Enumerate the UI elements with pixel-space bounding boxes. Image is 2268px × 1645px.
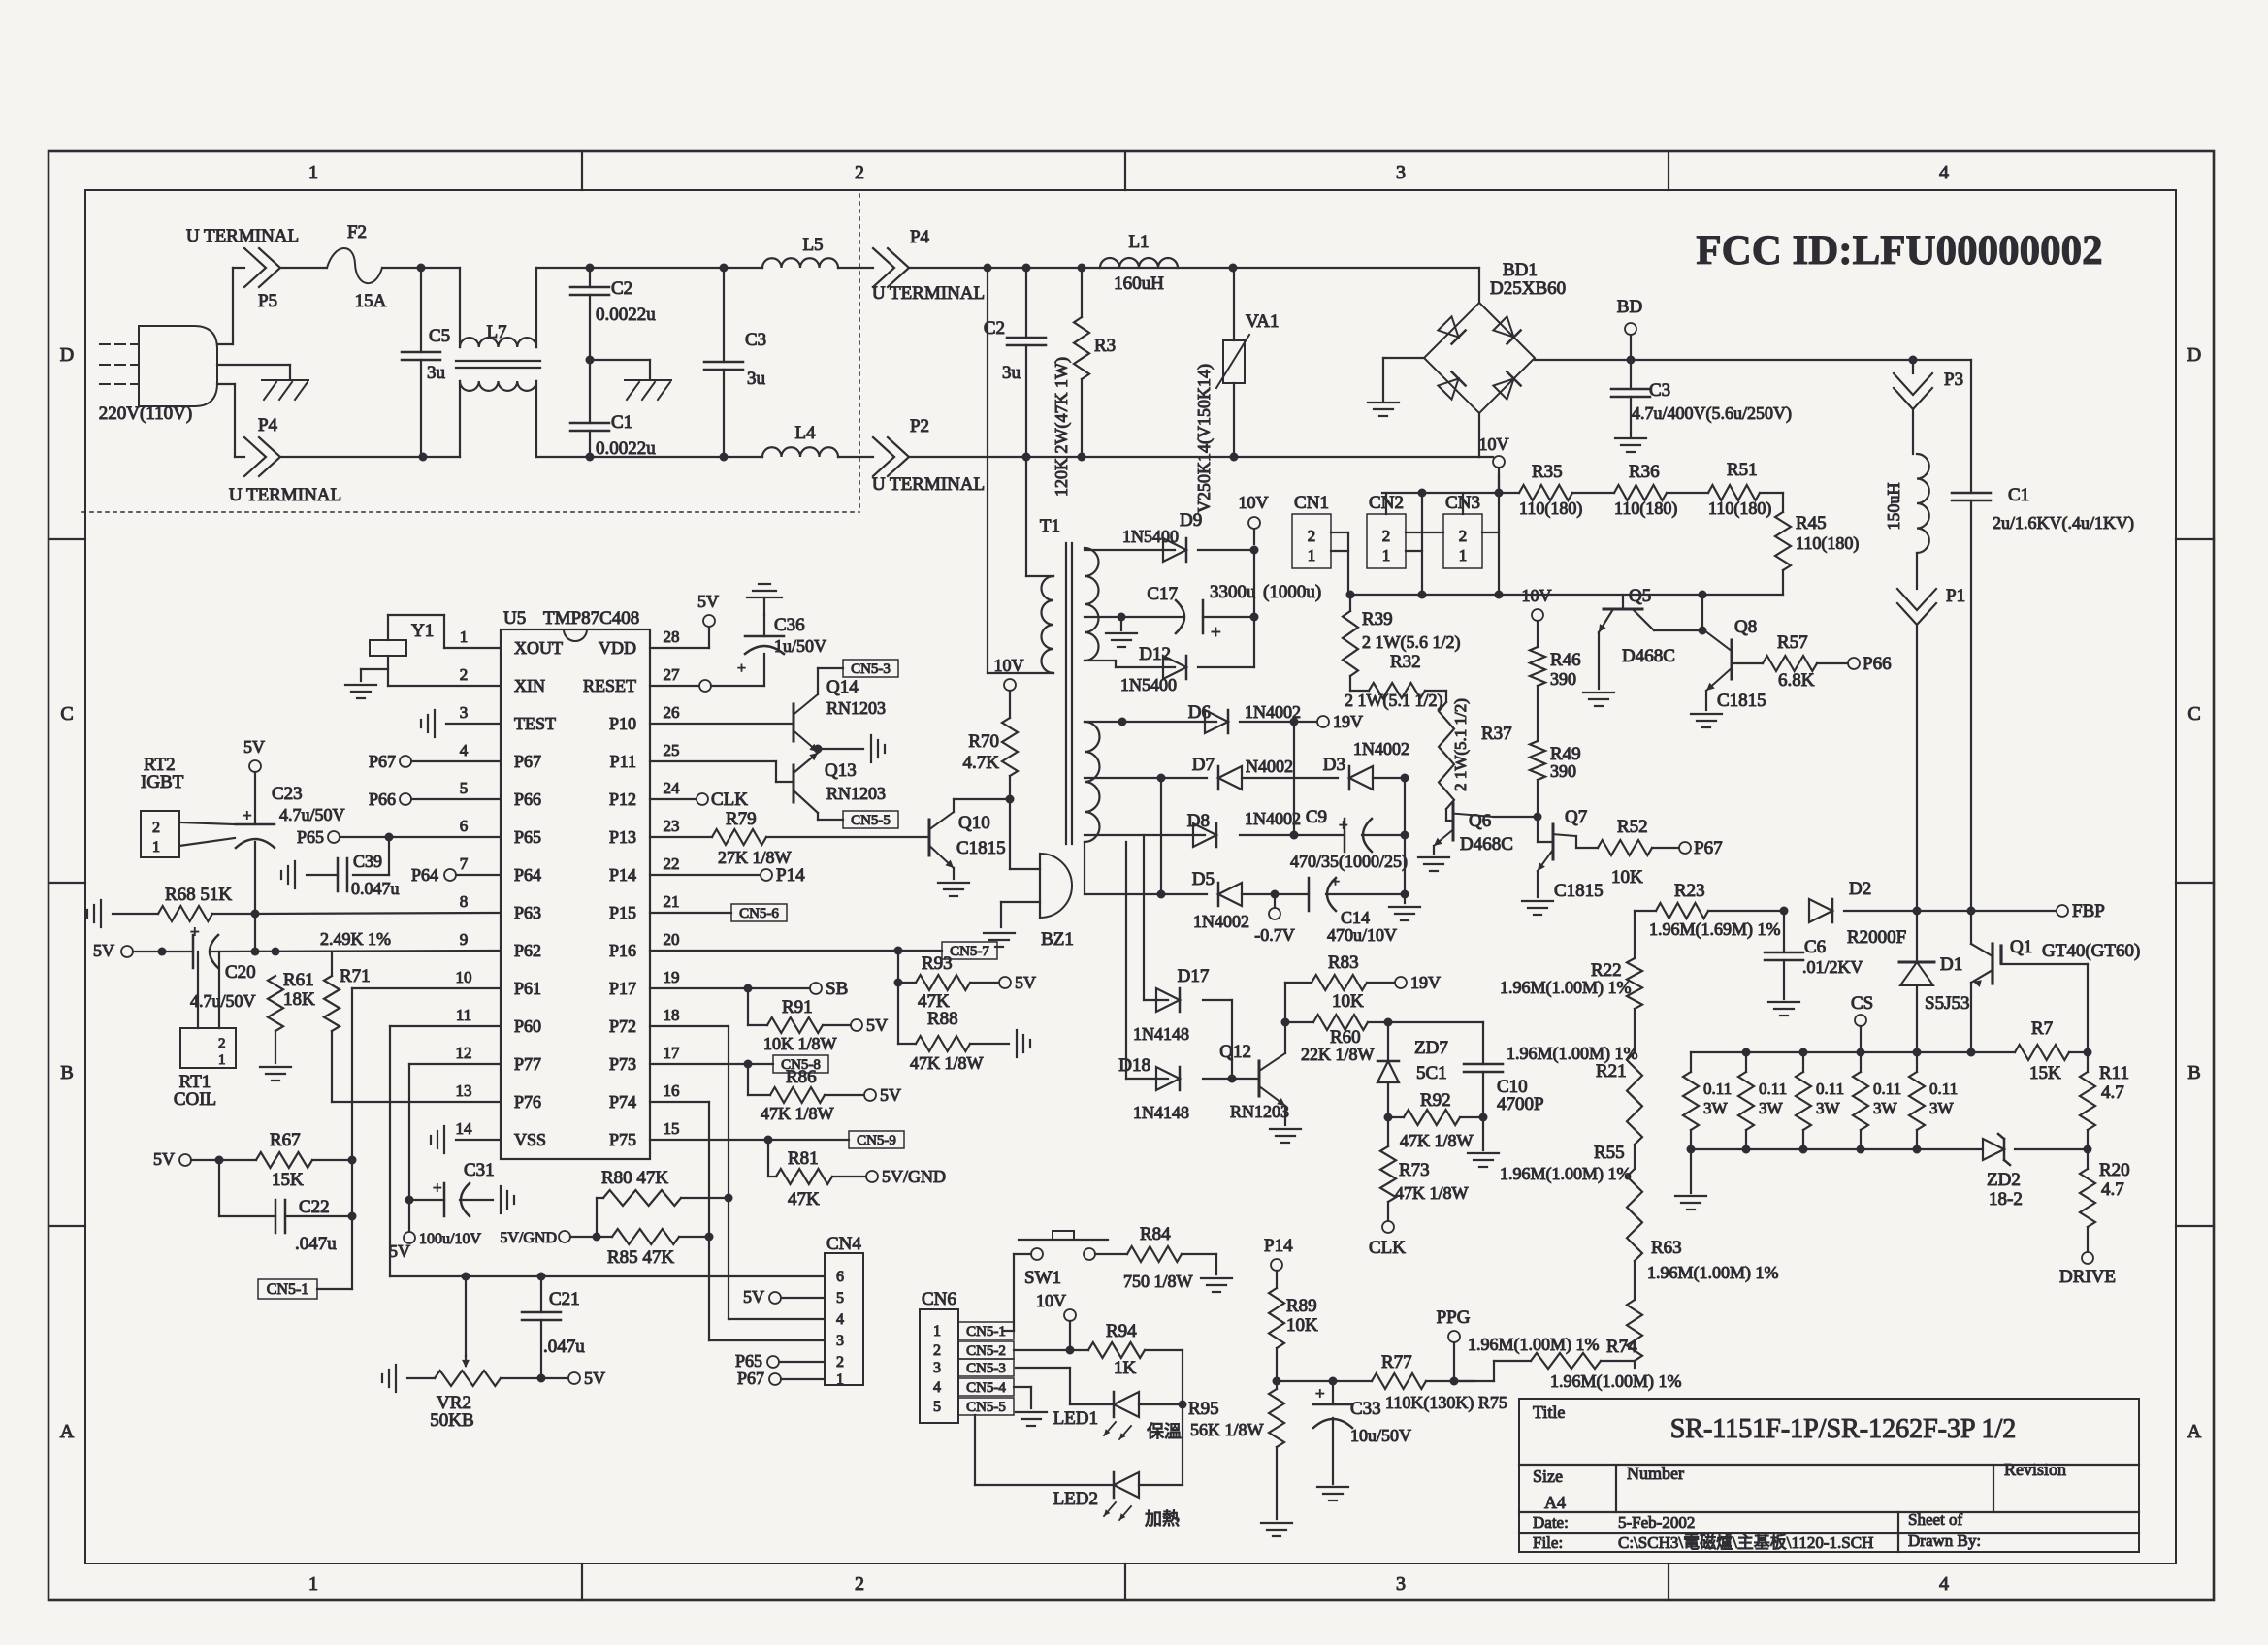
net label CN5-1 (left) bbox=[258, 1279, 352, 1299]
svg-text:R74: R74 bbox=[1606, 1337, 1637, 1357]
wire top rail to C3 bbox=[590, 264, 729, 273]
svg-text:R3: R3 bbox=[1094, 336, 1116, 356]
wire P5 to F2 bbox=[280, 267, 327, 269]
wire LED1 to CN5-3 bbox=[1016, 1368, 1114, 1404]
svg-text:110(180): 110(180) bbox=[1708, 499, 1771, 519]
capacitor C36 1u/50V bbox=[650, 615, 826, 692]
svg-text:A: A bbox=[2187, 1421, 2202, 1442]
ground (C36) bbox=[747, 584, 782, 615]
svg-text:P65: P65 bbox=[735, 1351, 762, 1371]
resistor R63 1.96M bbox=[1627, 1238, 1779, 1368]
wire R51 to R45 bbox=[1760, 493, 1783, 512]
svg-text:4: 4 bbox=[1939, 162, 1949, 183]
wire Q14 emitter to ground bbox=[814, 745, 864, 754]
svg-text:24: 24 bbox=[664, 779, 681, 797]
svg-text:3W: 3W bbox=[1816, 1099, 1841, 1117]
svg-text:P13: P13 bbox=[609, 827, 636, 847]
wire FBP rail bbox=[1844, 907, 2057, 916]
chassis ground (filter) bbox=[625, 380, 671, 400]
svg-text:A: A bbox=[60, 1421, 75, 1442]
svg-text:2u/1.6KV(.4u/1KV): 2u/1.6KV(.4u/1KV) bbox=[1993, 513, 2134, 533]
wire top rail to T1 primary bbox=[988, 268, 1053, 673]
svg-text:L1: L1 bbox=[1128, 232, 1149, 252]
terminal P3 bbox=[1894, 360, 1963, 409]
svg-text:D468C: D468C bbox=[1460, 834, 1513, 855]
svg-text:0.11: 0.11 bbox=[1703, 1080, 1732, 1098]
svg-text:P4: P4 bbox=[258, 415, 278, 435]
svg-text:R81: R81 bbox=[788, 1148, 819, 1169]
svg-text:1: 1 bbox=[152, 839, 160, 855]
wire D6 out to 19V bbox=[1240, 718, 1317, 726]
svg-text:P2: P2 bbox=[910, 416, 929, 436]
wire P74 to CN4 pin3 bbox=[650, 1102, 714, 1340]
ground (Y1) bbox=[345, 685, 376, 698]
capacitor C1 0.0022u bbox=[570, 360, 656, 459]
diode D17 1N4148 bbox=[1133, 966, 1209, 1044]
transistor Q14 RN1203 bbox=[650, 668, 886, 752]
svg-text:D: D bbox=[60, 344, 74, 366]
resistor R70 4.7K bbox=[963, 656, 1024, 804]
svg-text:U TERMINAL: U TERMINAL bbox=[229, 485, 341, 505]
zener ZD2 18-2 bbox=[1983, 1134, 2088, 1210]
svg-text:1N4002: 1N4002 bbox=[1193, 912, 1249, 931]
svg-text:CN5-3: CN5-3 bbox=[851, 661, 891, 677]
net 5V (VR2) bbox=[568, 1369, 605, 1388]
svg-text:A4: A4 bbox=[1544, 1493, 1566, 1512]
svg-text:Q1: Q1 bbox=[2010, 937, 2032, 957]
svg-text:0.11: 0.11 bbox=[1759, 1080, 1787, 1098]
svg-text:LED1: LED1 bbox=[1053, 1408, 1098, 1429]
net 10V (R94) bbox=[1036, 1291, 1076, 1355]
terminal P65 (pin6) bbox=[297, 827, 501, 847]
svg-text:25: 25 bbox=[664, 741, 680, 759]
svg-text:C2: C2 bbox=[611, 278, 632, 299]
svg-text:2: 2 bbox=[933, 1342, 941, 1359]
resistor R92 47K bbox=[1388, 1090, 1483, 1150]
svg-text:47K 1/8W: 47K 1/8W bbox=[1400, 1131, 1474, 1150]
svg-text:P77: P77 bbox=[514, 1054, 541, 1074]
resistor R35 110(180) bbox=[1519, 462, 1582, 519]
svg-text:BD: BD bbox=[1617, 297, 1642, 317]
resistor R94 1K bbox=[1088, 1321, 1183, 1378]
svg-text:Revision: Revision bbox=[2004, 1460, 2066, 1479]
wire D18 out to Q12 bbox=[1203, 1078, 1259, 1080]
svg-text:P11: P11 bbox=[610, 752, 636, 771]
svg-text:P10: P10 bbox=[609, 714, 636, 733]
resistor R95 56K bbox=[1188, 1381, 1284, 1447]
svg-text:1.96M(1.00M) 1%: 1.96M(1.00M) 1% bbox=[1500, 978, 1632, 998]
svg-text:CN5-1: CN5-1 bbox=[966, 1324, 1006, 1339]
resistor R22 1.96M bbox=[1500, 911, 1642, 1052]
net 5V/GND (R81) bbox=[866, 1167, 946, 1186]
dashed filter boundary bbox=[82, 194, 859, 512]
fuse F2 15A bbox=[327, 222, 387, 311]
svg-text:Q10: Q10 bbox=[958, 813, 990, 833]
svg-text:R51: R51 bbox=[1727, 460, 1758, 480]
svg-text:5V: 5V bbox=[389, 1242, 410, 1261]
diode D2 R2000F bbox=[1809, 879, 1906, 948]
net 10V tap (bridge) bbox=[1479, 435, 1509, 493]
svg-text:1: 1 bbox=[460, 628, 469, 646]
wire 5V pin9 row bbox=[93, 914, 501, 960]
svg-text:11: 11 bbox=[456, 1006, 471, 1024]
svg-text:CN4: CN4 bbox=[826, 1234, 861, 1254]
svg-text:1: 1 bbox=[1459, 546, 1468, 564]
svg-text:15: 15 bbox=[664, 1119, 680, 1138]
svg-text:CN6: CN6 bbox=[922, 1289, 956, 1309]
IC U5 TMP87C408 bbox=[456, 608, 681, 1159]
svg-text:Q6: Q6 bbox=[1469, 811, 1491, 831]
resistor R55 1.96M bbox=[1500, 1143, 1642, 1300]
wire 19V column to D17 bbox=[1144, 835, 1168, 1000]
svg-text:4700P: 4700P bbox=[1497, 1094, 1544, 1114]
svg-text:R39: R39 bbox=[1362, 609, 1393, 629]
svg-text:U5: U5 bbox=[503, 608, 526, 629]
svg-text:10V: 10V bbox=[994, 656, 1024, 675]
svg-text:50KB: 50KB bbox=[430, 1410, 473, 1431]
ground (C17) bbox=[1106, 633, 1137, 647]
svg-text:P66: P66 bbox=[1863, 654, 1892, 674]
svg-text:47K: 47K bbox=[788, 1189, 820, 1210]
svg-text:BZ1: BZ1 bbox=[1041, 929, 1074, 950]
svg-text:C9: C9 bbox=[1306, 807, 1327, 827]
net 5V (R93) bbox=[999, 973, 1036, 992]
svg-text:4: 4 bbox=[460, 741, 469, 759]
capacitor C2 3u (snubber) bbox=[984, 268, 1046, 457]
capacitor C21 .047u bbox=[522, 1276, 585, 1378]
svg-text:2: 2 bbox=[855, 1573, 864, 1595]
svg-text:0.11: 0.11 bbox=[1816, 1080, 1844, 1098]
svg-text:C1815: C1815 bbox=[1717, 691, 1766, 711]
svg-text:XIN: XIN bbox=[514, 676, 545, 695]
svg-text:3W: 3W bbox=[1873, 1099, 1898, 1117]
svg-text:1: 1 bbox=[1382, 546, 1391, 564]
capacitor C3 4.7u/400V bbox=[1611, 360, 1792, 436]
svg-text:CN5-3: CN5-3 bbox=[966, 1361, 1006, 1376]
svg-text:4.7: 4.7 bbox=[2101, 1082, 2124, 1103]
svg-text:5V: 5V bbox=[866, 1016, 888, 1035]
capacitor C22 .047u bbox=[219, 1160, 357, 1254]
connector CN2 bbox=[1367, 493, 1422, 568]
svg-text:10K: 10K bbox=[1332, 991, 1364, 1012]
svg-text:1: 1 bbox=[218, 1052, 226, 1068]
svg-text:.047u: .047u bbox=[543, 1337, 585, 1357]
net -0.7V bbox=[1254, 894, 1295, 945]
svg-text:10V: 10V bbox=[1479, 435, 1509, 454]
svg-text:R89: R89 bbox=[1286, 1296, 1317, 1316]
resistor R74 1.96M bbox=[1454, 1335, 1682, 1392]
svg-text:R32: R32 bbox=[1390, 652, 1421, 672]
net label CN5-5 (CN6) bbox=[958, 1398, 1014, 1415]
svg-text:FCC ID:LFU00000002: FCC ID:LFU00000002 bbox=[1696, 228, 2102, 274]
svg-text:5-Feb-2002: 5-Feb-2002 bbox=[1618, 1513, 1695, 1532]
svg-text:RESET: RESET bbox=[583, 676, 636, 695]
svg-text:D6: D6 bbox=[1188, 702, 1211, 723]
net 5V (R91) bbox=[851, 1016, 888, 1035]
wire Q5-Q8 node bbox=[1699, 595, 1707, 635]
svg-text:C1815: C1815 bbox=[1554, 881, 1604, 901]
svg-text:VSS: VSS bbox=[514, 1130, 546, 1149]
svg-text:P72: P72 bbox=[609, 1016, 636, 1036]
transistor Q13 RN1203 bbox=[650, 753, 886, 820]
ground (R88) bbox=[1017, 1030, 1030, 1057]
svg-text:D8: D8 bbox=[1187, 811, 1210, 831]
terminal P65 (CN4) bbox=[735, 1351, 779, 1371]
resistor R36 110(180) bbox=[1614, 462, 1677, 519]
svg-text:2: 2 bbox=[1459, 527, 1468, 545]
ground (R95) bbox=[1261, 1523, 1292, 1536]
svg-text:5: 5 bbox=[933, 1399, 941, 1415]
svg-text:D25XB60: D25XB60 bbox=[1490, 278, 1566, 299]
svg-text:R36: R36 bbox=[1629, 462, 1660, 482]
svg-text:1: 1 bbox=[308, 1573, 318, 1595]
ground (C6) bbox=[1768, 1002, 1799, 1016]
svg-text:R46: R46 bbox=[1550, 650, 1581, 670]
ground (C14) bbox=[1389, 907, 1420, 920]
transistor Q1 GT40(GT60) bbox=[1971, 911, 2140, 1052]
wire D3 out bbox=[1373, 774, 1409, 783]
svg-text:CN5-9: CN5-9 bbox=[857, 1133, 896, 1148]
svg-text:3W: 3W bbox=[1703, 1099, 1729, 1117]
transistor Q7 C1815 bbox=[1538, 807, 1604, 901]
node C2/C1 junctions bbox=[586, 264, 595, 462]
svg-text:2: 2 bbox=[1308, 527, 1316, 545]
wire sec2 top to D6 bbox=[1085, 718, 1216, 726]
svg-text:R77: R77 bbox=[1381, 1352, 1412, 1372]
connector CN4 bbox=[709, 1234, 863, 1388]
wire R45 to lower bus bbox=[1346, 570, 1784, 599]
svg-text:PPG: PPG bbox=[1437, 1307, 1471, 1328]
net 10V (D9) bbox=[1239, 493, 1269, 544]
svg-text:P66: P66 bbox=[369, 790, 396, 809]
terminal P1 bbox=[1897, 586, 1965, 625]
svg-text:B: B bbox=[2187, 1062, 2200, 1083]
shunt resistor 0.11 3W (4) bbox=[1853, 1052, 1901, 1149]
resistor R73 47K bbox=[1380, 1117, 1469, 1221]
svg-text:.01/2KV: .01/2KV bbox=[1802, 957, 1863, 977]
svg-text:R57: R57 bbox=[1777, 632, 1808, 653]
svg-text:P73: P73 bbox=[609, 1054, 636, 1074]
resistor R52 10K bbox=[1598, 817, 1679, 887]
terminal SB (pin19) bbox=[650, 979, 848, 999]
resistor R23 1.96M bbox=[1635, 881, 1789, 940]
capacitor C6 .01/2KV bbox=[1765, 911, 1863, 999]
net label CN5-7 bbox=[650, 942, 997, 959]
svg-text:P14: P14 bbox=[776, 865, 805, 886]
svg-text:R21: R21 bbox=[1596, 1061, 1627, 1081]
net 5V (C31) bbox=[389, 1200, 415, 1261]
svg-text:C36: C36 bbox=[774, 615, 805, 635]
svg-text:4.7u/400V(5.6u/250V): 4.7u/400V(5.6u/250V) bbox=[1632, 403, 1792, 424]
wire D9 out bbox=[1198, 546, 1259, 555]
svg-text:10V: 10V bbox=[1036, 1291, 1066, 1310]
svg-text:3: 3 bbox=[836, 1333, 844, 1349]
svg-text:Q13: Q13 bbox=[825, 760, 857, 781]
svg-text:+: + bbox=[1211, 623, 1221, 643]
svg-text:P66: P66 bbox=[514, 790, 541, 809]
wire sec1 bottom to D12 bbox=[1085, 661, 1175, 667]
svg-text:VA1: VA1 bbox=[1246, 311, 1280, 332]
svg-text:7: 7 bbox=[460, 855, 469, 873]
ground (VR2) bbox=[382, 1365, 396, 1392]
wire sec2 bottom bbox=[1085, 842, 1166, 899]
resistor R61 18K bbox=[268, 970, 315, 1063]
svg-text:D5: D5 bbox=[1192, 869, 1215, 889]
svg-text:2: 2 bbox=[836, 1354, 844, 1371]
wire sec2 tap2 to D7 bbox=[1085, 774, 1207, 783]
resistor R57 6.8K bbox=[1732, 632, 1848, 691]
svg-text:CLK: CLK bbox=[1369, 1238, 1406, 1258]
resistor R77 110K bbox=[1372, 1352, 1507, 1413]
svg-text:+: + bbox=[243, 806, 252, 824]
capacitor C20 4.7u/50V bbox=[190, 922, 256, 1011]
svg-text:CLK: CLK bbox=[711, 790, 748, 810]
wire pin13 row P76 bbox=[332, 1101, 501, 1103]
svg-text:P65: P65 bbox=[514, 827, 541, 847]
svg-text:P64: P64 bbox=[411, 865, 438, 885]
svg-text:P60: P60 bbox=[514, 1016, 541, 1036]
svg-text:B: B bbox=[60, 1062, 73, 1083]
wire P72 to CN4 pin4 bbox=[501, 1026, 733, 1319]
svg-text:Q8: Q8 bbox=[1734, 617, 1757, 637]
svg-text:110(180): 110(180) bbox=[1796, 533, 1859, 554]
svg-text:R91: R91 bbox=[782, 997, 813, 1017]
svg-text:2: 2 bbox=[218, 1036, 226, 1051]
svg-text:RN1203: RN1203 bbox=[826, 698, 886, 718]
transformer T1 secondary upper bbox=[1085, 548, 1099, 661]
svg-text:P65: P65 bbox=[297, 827, 324, 847]
svg-text:IGBT: IGBT bbox=[141, 772, 184, 792]
svg-text:6.8K: 6.8K bbox=[1778, 670, 1815, 691]
svg-text:R52: R52 bbox=[1617, 817, 1648, 837]
svg-text:18-2: 18-2 bbox=[1989, 1189, 2023, 1210]
svg-text:Q12: Q12 bbox=[1219, 1042, 1251, 1062]
svg-text:20: 20 bbox=[664, 930, 680, 949]
svg-text:110(180): 110(180) bbox=[1614, 499, 1677, 519]
svg-text:FBP: FBP bbox=[2072, 901, 2105, 921]
terminal CS bbox=[1851, 993, 1873, 1052]
svg-text:C3: C3 bbox=[1649, 380, 1670, 401]
shunt resistor 0.11 3W (5) bbox=[1909, 1052, 1958, 1149]
resistor R37 2 1W(5.1 1/2) bbox=[1425, 691, 1512, 809]
svg-text:5: 5 bbox=[836, 1290, 844, 1306]
svg-text:C21: C21 bbox=[549, 1289, 580, 1309]
svg-text:470/35(1000/25): 470/35(1000/25) bbox=[1290, 852, 1408, 872]
wire D17 out bbox=[1203, 1000, 1237, 1083]
svg-text:1: 1 bbox=[836, 1371, 844, 1388]
svg-text:P5: P5 bbox=[258, 291, 277, 311]
capacitor C2 0.0022u bbox=[570, 268, 656, 360]
svg-text:C6: C6 bbox=[1804, 937, 1826, 957]
svg-text:18K: 18K bbox=[283, 989, 315, 1010]
transistor Q12 RN1203 bbox=[1219, 1022, 1289, 1125]
diode D12 1N5400 bbox=[1120, 644, 1186, 694]
wire CN5-5 to LED2 bbox=[975, 1415, 1114, 1485]
svg-text:P14: P14 bbox=[609, 865, 636, 885]
svg-text:C23: C23 bbox=[272, 784, 303, 804]
svg-text:110K(130K) R75: 110K(130K) R75 bbox=[1385, 1393, 1507, 1413]
terminal P66 (pin5) bbox=[369, 790, 501, 809]
svg-text:.047u: .047u bbox=[295, 1234, 337, 1254]
svg-text:R86: R86 bbox=[786, 1067, 817, 1087]
svg-text:2: 2 bbox=[1382, 527, 1391, 545]
svg-text:P64: P64 bbox=[514, 865, 541, 885]
chassis ground (plug) bbox=[262, 380, 308, 400]
svg-text:Q5: Q5 bbox=[1629, 586, 1651, 606]
ground (Q12) bbox=[1270, 1129, 1301, 1143]
wire D5 out bbox=[1242, 890, 1309, 899]
net label CN5-1 (CN6) bbox=[958, 1322, 1014, 1339]
net label CN5-4 (CN6) bbox=[958, 1378, 1014, 1396]
svg-text:CN5-1: CN5-1 bbox=[267, 1281, 309, 1298]
wire to D5 bbox=[1161, 893, 1207, 895]
svg-text:1: 1 bbox=[308, 162, 318, 183]
svg-text:3u: 3u bbox=[747, 369, 766, 389]
svg-text:L4: L4 bbox=[794, 423, 816, 443]
wire CN5-2 row bbox=[1014, 1349, 1088, 1351]
svg-text:LED2: LED2 bbox=[1053, 1489, 1098, 1509]
svg-text:6: 6 bbox=[460, 817, 469, 835]
svg-text:VDD: VDD bbox=[599, 638, 636, 658]
svg-text:26: 26 bbox=[664, 703, 680, 722]
svg-text:P62: P62 bbox=[514, 941, 541, 960]
svg-text:16: 16 bbox=[664, 1081, 680, 1100]
terminal P67 (CN4) bbox=[737, 1369, 781, 1388]
thermistor RT1 COIL bbox=[174, 952, 236, 1110]
svg-text:CN5-5: CN5-5 bbox=[966, 1400, 1006, 1415]
wire rail to bridge top bbox=[1478, 268, 1480, 303]
wire R36-R51 bbox=[1667, 492, 1708, 494]
svg-text:R11: R11 bbox=[2099, 1063, 2129, 1083]
svg-text:22: 22 bbox=[664, 855, 680, 873]
svg-text:R37: R37 bbox=[1481, 724, 1512, 744]
svg-text:XOUT: XOUT bbox=[514, 638, 563, 658]
svg-text:保溫: 保溫 bbox=[1147, 1422, 1182, 1441]
svg-text:10: 10 bbox=[456, 968, 472, 986]
svg-text:5V: 5V bbox=[243, 737, 265, 757]
svg-text:C5: C5 bbox=[429, 326, 450, 346]
svg-text:3300u: 3300u bbox=[1210, 582, 1256, 602]
svg-text:C20: C20 bbox=[225, 962, 256, 983]
svg-text:15K: 15K bbox=[2029, 1063, 2061, 1083]
capacitor C10 4700P bbox=[1388, 1022, 1544, 1122]
svg-text:P17: P17 bbox=[609, 979, 636, 998]
resistor R21 1.96M bbox=[1507, 1044, 1642, 1169]
resistor R51 110(180) bbox=[1708, 460, 1771, 519]
svg-text:100u/10V: 100u/10V bbox=[419, 1231, 481, 1247]
svg-text:9: 9 bbox=[460, 930, 469, 949]
svg-text:390: 390 bbox=[1550, 669, 1576, 689]
varistor VA1 bbox=[1194, 268, 1280, 513]
capacitor C17 3300u bbox=[1147, 582, 1321, 643]
svg-text:5V/GND: 5V/GND bbox=[500, 1230, 557, 1246]
svg-text:10V: 10V bbox=[1522, 586, 1552, 605]
svg-text:RN1203: RN1203 bbox=[826, 784, 886, 803]
ground (C10) bbox=[1468, 1117, 1499, 1167]
svg-text:C1: C1 bbox=[611, 412, 632, 433]
wire D8 out bbox=[1240, 722, 1345, 840]
svg-text:Size: Size bbox=[1533, 1467, 1563, 1486]
svg-text:U TERMINAL: U TERMINAL bbox=[872, 283, 985, 304]
svg-text:5V: 5V bbox=[93, 941, 114, 960]
net 19V (D6) bbox=[1317, 712, 1363, 731]
svg-text:ZD2: ZD2 bbox=[1987, 1170, 2021, 1190]
svg-text:D1: D1 bbox=[1940, 954, 1962, 975]
svg-text:R80 47K: R80 47K bbox=[601, 1168, 668, 1188]
bridge rectifier BD1 D25XB60 bbox=[1424, 260, 1566, 413]
wire bridge left to ground bbox=[1383, 358, 1424, 401]
ground (Q5) bbox=[1583, 693, 1614, 706]
